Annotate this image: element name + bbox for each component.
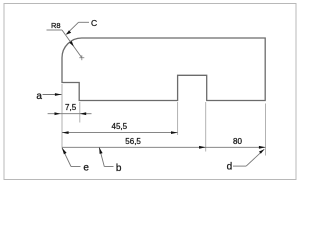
R8 leader: underline + diagonal to center bbox=[47, 30, 82, 58]
svg-text:7,5: 7,5 bbox=[65, 103, 77, 112]
svg-text:R8: R8 bbox=[51, 21, 61, 30]
svg-text:b: b bbox=[116, 163, 122, 174]
extension lines bbox=[62, 84, 266, 156]
svg-text:45,5: 45,5 bbox=[112, 122, 128, 131]
svg-text:e: e bbox=[83, 163, 89, 174]
7,5 dimension (outside arrows) bbox=[48, 113, 92, 115]
border frame bbox=[4, 4, 296, 180]
C leader bbox=[66, 22, 89, 34]
svg-text:d: d bbox=[227, 162, 233, 173]
svg-text:80: 80 bbox=[233, 137, 242, 146]
part profile outline bbox=[62, 38, 265, 101]
b leader bbox=[99, 147, 113, 166]
svg-text:C: C bbox=[91, 18, 97, 28]
C arrowhead bbox=[66, 30, 71, 34]
svg-text:a: a bbox=[36, 91, 42, 102]
a leader bbox=[43, 94, 62, 96]
d leader bbox=[233, 149, 264, 166]
radius center mark bbox=[79, 55, 84, 60]
45,5 dimension bbox=[62, 132, 178, 134]
svg-text:56,5: 56,5 bbox=[125, 137, 141, 146]
R8 arrowhead on arc pointing to center bbox=[69, 41, 74, 46]
56,5 / 80 dimension line bbox=[62, 146, 266, 148]
e leader bbox=[62, 148, 81, 167]
